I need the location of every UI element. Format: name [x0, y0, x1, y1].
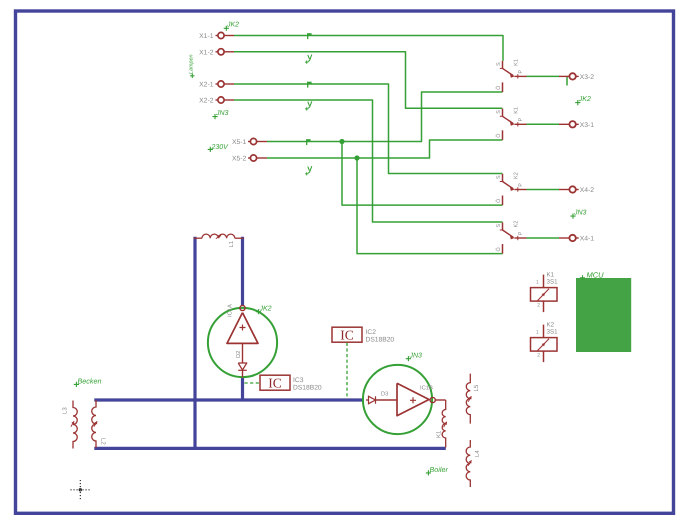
svg-text:Ö: Ö: [495, 247, 502, 251]
svg-text:X5-1: X5-1: [232, 139, 247, 146]
bus pipe horizontal lower: [94, 447, 446, 450]
svg-text:K2: K2: [514, 172, 520, 179]
net name N below X5-2 wire: [308, 166, 312, 173]
bus wire right vertical upper (to pump IC1A): [241, 237, 244, 305]
svg-text:K1: K1: [514, 107, 520, 114]
IC1A triangle with +: [227, 313, 258, 344]
svg-text:JN3: JN3: [215, 110, 229, 117]
net name N below X2-2 wire: [308, 101, 312, 108]
wire net X2-2 to K2b top: [234, 100, 503, 222]
net name P on X1-1 wire: [307, 33, 312, 35]
inductor L2: [92, 400, 96, 448]
svg-text:X5-2: X5-2: [232, 156, 247, 163]
connector pin X5-2: [248, 157, 251, 159]
svg-text:DS18B20: DS18B20: [366, 336, 395, 343]
svg-text:K2: K2: [547, 322, 555, 329]
svg-text:X4-2: X4-2: [580, 187, 595, 194]
svg-text:Ö: Ö: [495, 199, 502, 203]
svg-text:X1-1: X1-1: [199, 33, 214, 40]
svg-text:L4: L4: [474, 450, 481, 457]
svg-text:IC2: IC2: [366, 329, 377, 336]
wire net X1-1 to K1a top: [234, 36, 503, 61]
svg-text:L1: L1: [228, 240, 235, 247]
svg-text:K2: K2: [514, 221, 520, 228]
svg-text:D2: D2: [235, 351, 242, 358]
IC1B output pin: [430, 397, 435, 402]
svg-text:X1-2: X1-2: [199, 49, 214, 56]
svg-text:Ö: Ö: [495, 86, 502, 90]
svg-text:IC1B: IC1B: [420, 385, 433, 392]
net name P on X5-1 wire: [306, 139, 311, 141]
relay contact K2b: [502, 222, 504, 230]
connector pin X3-2: [569, 73, 575, 79]
inductor L1: [194, 237, 203, 239]
sensor IC2 box: [332, 327, 362, 342]
connector pin X4-2: [569, 186, 575, 192]
svg-text:JK2: JK2: [578, 96, 591, 103]
svg-text:S: S: [496, 62, 502, 66]
svg-text:X2-1: X2-1: [199, 82, 214, 89]
connector pin X2-2: [216, 99, 219, 101]
svg-text:S: S: [496, 110, 502, 114]
svg-text:JN3: JN3: [573, 210, 587, 217]
svg-text:K1: K1: [547, 272, 555, 279]
svg-text:Boiler: Boiler: [430, 465, 449, 474]
inductor L3: [73, 401, 77, 449]
relay coil K2: [543, 325, 545, 338]
svg-text:X2-2: X2-2: [199, 98, 214, 105]
dashed link IC2 to pipe: [346, 343, 348, 398]
svg-text:L2: L2: [100, 438, 107, 445]
connector pin X1-1: [216, 35, 219, 37]
bus wire pump IC1A to pipe: [241, 378, 244, 401]
connector pin X1-2: [216, 51, 219, 53]
svg-text:2: 2: [537, 353, 540, 359]
bus pipe horizontal upper: [94, 398, 364, 401]
svg-text:IC1A: IC1A: [227, 304, 234, 317]
svg-text:IC: IC: [340, 328, 354, 343]
sensor IC3 box: [260, 375, 290, 390]
svg-text:1: 1: [536, 329, 539, 335]
svg-text:L3: L3: [61, 407, 68, 414]
svg-text:K1: K1: [514, 59, 520, 66]
pump / driver IC1A circle: [208, 308, 277, 377]
svg-text:P: P: [518, 118, 524, 122]
relay contact K2a: [502, 174, 504, 182]
connector pin X2-1: [216, 83, 219, 85]
svg-text:IC3: IC3: [293, 377, 304, 384]
svg-text:2: 2: [537, 303, 540, 309]
svg-text:3S1: 3S1: [547, 279, 559, 286]
svg-text:230V: 230V: [211, 144, 230, 151]
svg-text:X4-1: X4-1: [580, 236, 595, 243]
junction on X5-2 net: [355, 156, 359, 160]
IC1B triangle with +: [397, 383, 429, 415]
svg-text:MCU: MCU: [587, 271, 605, 280]
connector pin X5-1: [248, 141, 251, 143]
svg-text:P: P: [518, 183, 524, 187]
inductor L5: [466, 374, 470, 424]
wire net X2-1 to K2a top: [234, 84, 503, 174]
svg-text:L5: L5: [473, 384, 480, 391]
svg-text:3S1: 3S1: [547, 329, 559, 336]
MCU block: [576, 278, 631, 352]
svg-text:X3-2: X3-2: [580, 74, 595, 81]
connector pin X4-1: [569, 235, 575, 241]
dashed link pump1 to IC3: [245, 382, 260, 384]
svg-text:D3: D3: [381, 390, 388, 397]
net name P on X2-1 wire: [307, 82, 312, 84]
svg-text:P: P: [518, 70, 524, 74]
pump / driver IC1B circle: [363, 365, 432, 434]
wire net 230V-N from X5-2: [267, 140, 503, 158]
svg-text:X3-1: X3-1: [580, 122, 595, 129]
wire net X1-2 to K1b top: [234, 52, 503, 109]
svg-text:1: 1: [536, 279, 539, 285]
diode D2: [242, 343, 244, 362]
inductor L4: [466, 440, 470, 487]
relay contact K1a: [502, 61, 504, 69]
bus wire left vertical: [193, 237, 196, 448]
svg-text:Ö: Ö: [495, 134, 502, 138]
svg-text:P: P: [518, 231, 524, 235]
relay coil K1 (vertical): [442, 400, 446, 448]
svg-text:S: S: [496, 224, 502, 228]
wire pump2 output to coil K1: [436, 399, 446, 401]
wire net 230V-P from X5-1: [267, 92, 503, 142]
connector pin X3-1: [569, 121, 575, 127]
origin crosshair: [71, 480, 91, 500]
svg-text:S: S: [496, 175, 502, 179]
diode D3: [369, 396, 376, 403]
relay contact K1b: [502, 109, 504, 117]
junction on X5-1 net: [340, 139, 344, 143]
wire branch X5-2 to K2b bottom: [357, 158, 503, 254]
svg-text:DS18B20: DS18B20: [293, 384, 322, 391]
wire stub below X3-2: [566, 77, 568, 86]
wire branch X5-1 to K2a bottom: [342, 142, 503, 206]
svg-text:JK2: JK2: [226, 22, 239, 29]
relay coil K1: [543, 275, 545, 288]
svg-text:Becken: Becken: [78, 376, 102, 385]
IC1A top pin: [240, 305, 245, 310]
svg-text:K1: K1: [436, 430, 443, 438]
svg-text:Lampen: Lampen: [189, 55, 195, 74]
svg-text:IC: IC: [268, 376, 282, 391]
net name N below X1-2 wire: [308, 55, 312, 62]
